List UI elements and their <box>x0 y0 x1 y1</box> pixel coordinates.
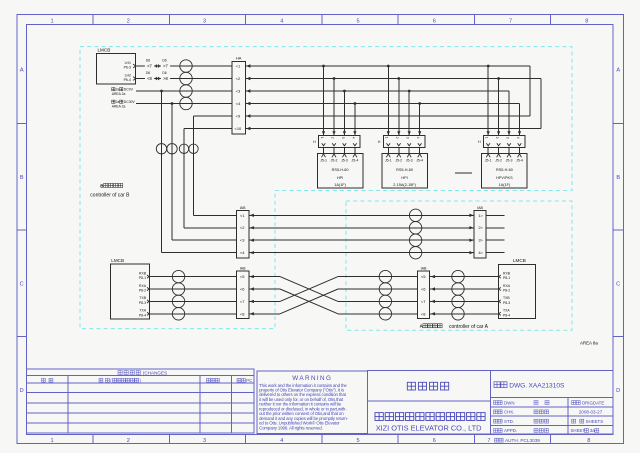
changes table column lines <box>67 375 69 433</box>
svg-text:1: 1 <box>485 137 489 139</box>
svg-text:J5-4: J5-4 <box>516 159 523 163</box>
changes table column header change <box>99 378 103 382</box>
title text parallel circuit <box>407 382 415 390</box>
svg-text:AREA 2a: AREA 2a <box>112 92 126 96</box>
hall unit RS5 unit1 box <box>317 154 363 189</box>
svg-text:4>: 4> <box>478 250 483 255</box>
title row origdate <box>572 401 576 405</box>
svg-text:AUTH. PCL3039: AUTH. PCL3039 <box>505 438 540 443</box>
unit3 pin J5-1 <box>487 147 489 153</box>
svg-text:B: B <box>616 175 620 181</box>
IAB upper-right pin 2 <box>469 226 473 229</box>
wire vertical HA10 to IAB-up pin2 <box>183 129 185 228</box>
junction strip3 pin2 <box>497 77 500 80</box>
svg-text:LMCB: LMCB <box>111 258 124 263</box>
svg-text:HPI: HPI <box>401 176 407 180</box>
unit3 pin J5-2 <box>498 147 500 153</box>
junction strip2 pin1 <box>387 65 390 68</box>
svg-text:B: B <box>20 175 24 181</box>
svg-text:2: 2 <box>127 438 130 444</box>
svg-text:<3: <3 <box>236 89 241 94</box>
svg-text:<2: <2 <box>240 225 245 230</box>
wire IAB lower-right to LMCB-A row 7 <box>430 300 499 302</box>
wire drop strip2 pin1 <box>387 66 389 136</box>
warning notice box <box>257 371 368 433</box>
twisted pair IAB link rows 3-4 <box>409 234 421 246</box>
svg-text:APPD.: APPD. <box>504 428 517 433</box>
frame row ticks left <box>17 123 27 125</box>
svg-text:>7: >7 <box>163 64 168 69</box>
connector HA <box>232 62 245 134</box>
svg-text:<3: <3 <box>240 238 245 243</box>
wire drop strip1 pin1 <box>323 66 325 136</box>
svg-text:P8-2: P8-2 <box>139 289 146 293</box>
svg-text:IAB: IAB <box>421 267 427 271</box>
svg-text:<7: <7 <box>421 299 426 304</box>
svg-text:2: 2 <box>395 137 399 139</box>
svg-text:ORIGDATE: ORIGDATE <box>582 400 605 405</box>
svg-text:>8: >8 <box>163 76 168 81</box>
wire IAB upper-right stub 3 <box>486 239 504 241</box>
twisted pair LH1-LH2 <box>180 60 192 72</box>
junction DC30V vertical <box>171 102 174 105</box>
svg-text:IAB: IAB <box>240 206 246 210</box>
svg-text:WARNING: WARNING <box>292 375 332 382</box>
wire drop strip3 pin4 <box>519 104 521 136</box>
svg-text:2: 2 <box>330 137 334 139</box>
junction strip2 pin3 <box>408 90 411 93</box>
svg-text:P8-4: P8-4 <box>503 313 510 317</box>
svg-text:1>: 1> <box>478 213 483 218</box>
wire drop strip3 pin1 <box>487 66 489 136</box>
junction strip3 pin1 <box>487 65 490 68</box>
junction strip1 pin3 <box>343 90 346 93</box>
svg-text:J5-4: J5-4 <box>351 159 358 163</box>
wire drop strip2 pin4 <box>419 104 421 136</box>
svg-text:RXB: RXB <box>139 271 147 275</box>
wire loop riser1 to HA9 <box>529 66 531 116</box>
twisted pair LMCB-A rows 5-6 <box>452 270 464 282</box>
svg-text:2008-03-27: 2008-03-27 <box>579 410 603 415</box>
svg-text:RS5-H-60: RS5-H-60 <box>332 168 349 172</box>
svg-text:A: A <box>616 68 620 74</box>
svg-text:5: 5 <box>356 438 359 444</box>
unit2 pin J5-3 <box>408 147 410 153</box>
svg-text:6: 6 <box>433 438 436 444</box>
svg-text:7: 7 <box>488 438 491 444</box>
svg-text:D6: D6 <box>146 59 150 63</box>
svg-text:P8-1: P8-1 <box>139 276 146 280</box>
svg-text:<6: <6 <box>421 287 426 292</box>
svg-text:D6: D6 <box>162 71 166 75</box>
wire crossover diagonal 8-6 <box>280 289 338 314</box>
wire IAB lower-right to LMCB-A row 6 <box>430 288 499 290</box>
wire loop riser2 to HA10 <box>540 79 542 129</box>
title row sheets <box>572 419 576 423</box>
svg-text:J5-2: J5-2 <box>395 159 402 163</box>
wire LMCB-B to IAB row 5 <box>149 276 236 278</box>
svg-text:PC: PC <box>246 378 252 383</box>
svg-text:IAB: IAB <box>477 206 483 210</box>
svg-text:3: 3 <box>505 137 509 139</box>
svg-text:<1: <1 <box>236 64 241 69</box>
dashed boundary controller of car A region <box>346 201 572 330</box>
svg-text:<10: <10 <box>235 126 243 131</box>
svg-text:8: 8 <box>587 438 590 444</box>
svg-text:7: 7 <box>509 18 512 24</box>
changes table row lines <box>27 374 255 376</box>
twisted pair LMCB-B rows 7-8 <box>172 295 184 307</box>
svg-text:SHEET: SHEET <box>571 428 586 433</box>
svg-text:<4: <4 <box>240 250 245 255</box>
wire drop strip2 pin2 <box>398 79 400 136</box>
svg-text:P8-3: P8-3 <box>139 301 146 305</box>
svg-text:controller of car B: controller of car B <box>90 192 130 198</box>
svg-text:D6: D6 <box>162 59 166 63</box>
wire HA1 riser row <box>245 65 530 67</box>
wire HA9 right segment <box>245 115 530 117</box>
svg-text:1: 1 <box>50 438 53 444</box>
wire HA4 riser row <box>245 103 519 105</box>
continuation dash between unit2 and unit3 <box>455 172 472 174</box>
drawing number text <box>494 382 500 388</box>
svg-text:SHEETS: SHEETS <box>586 419 604 424</box>
wire LH1 row <box>136 65 233 67</box>
twisted pair DC rows <box>180 85 192 97</box>
title row CHK <box>494 410 498 414</box>
changes table column header change PC <box>237 378 241 382</box>
svg-text:J5-4: J5-4 <box>416 159 423 163</box>
svg-text:D6: D6 <box>146 71 150 75</box>
svg-text:4: 4 <box>280 18 283 24</box>
wire HA10 left segment <box>184 128 232 130</box>
connector IAB upper-left <box>236 211 249 259</box>
svg-text:2a: 2a <box>116 100 120 104</box>
svg-text:D: D <box>616 388 620 394</box>
svg-text:controller of car A: controller of car A <box>449 324 489 330</box>
junction strip1 pin2 <box>333 77 336 80</box>
wire crossover right stubs <box>338 276 417 278</box>
wire HA9 left segment <box>194 115 233 117</box>
svg-text:J5-3: J5-3 <box>506 159 513 163</box>
wire drop strip1 pin3 <box>343 91 345 136</box>
svg-text:<7: <7 <box>240 299 245 304</box>
svg-text:2: 2 <box>495 137 499 139</box>
svg-text:3: 3 <box>203 438 206 444</box>
LMCB controller-B box <box>97 54 136 85</box>
unit1 pin J5-4 <box>354 147 356 153</box>
svg-text:RXA: RXA <box>503 284 511 288</box>
svg-text:DWG.: DWG. <box>509 382 527 389</box>
wire IAB lower-right to LMCB-A row 8 <box>430 313 499 315</box>
IAB upper-right pin 4 <box>469 251 473 254</box>
svg-text:J5-1: J5-1 <box>385 159 392 163</box>
svg-text:2: 2 <box>127 18 130 24</box>
unit2 pin J5-2 <box>398 147 400 153</box>
twisted pair LMCB-A rows 7-8 <box>452 295 464 307</box>
hall unit RS5 unit3 box <box>482 154 528 189</box>
svg-text:4: 4 <box>416 137 420 139</box>
twisted pair verticals left <box>156 144 166 154</box>
svg-text:3: 3 <box>341 137 345 139</box>
svg-text:A: A <box>20 68 24 74</box>
svg-text:IAB: IAB <box>240 267 246 271</box>
svg-text:5: 5 <box>356 18 359 24</box>
connector H strip1 <box>319 136 360 148</box>
dashed boundary controller of car B region <box>80 47 572 329</box>
svg-text:J5-2: J5-2 <box>495 159 502 163</box>
IAB upper-right pin 3 <box>469 239 473 242</box>
LMCB controller-A box <box>499 264 536 318</box>
label sheet2a DC0V <box>112 88 115 91</box>
svg-text:J5-1: J5-1 <box>320 159 327 163</box>
svg-text:LH2: LH2 <box>125 73 131 77</box>
svg-text:P8-3: P8-3 <box>503 301 510 305</box>
svg-text:XIZI OTIS ELEVATOR CO., LTD: XIZI OTIS ELEVATOR CO., LTD <box>376 424 482 433</box>
svg-text:<4: <4 <box>236 101 241 106</box>
unit2 pin J5-4 <box>419 147 421 153</box>
svg-text:<8: <8 <box>147 76 152 81</box>
svg-text:CHK.: CHK. <box>504 410 515 415</box>
wire LMCB-B to IAB row 8 <box>149 313 236 315</box>
connector H strip3 <box>484 136 525 148</box>
svg-text:J5-3: J5-3 <box>341 159 348 163</box>
unit3 pin J5-3 <box>508 147 510 153</box>
connector H strip2 <box>383 136 424 148</box>
svg-text:STD.: STD. <box>504 419 514 424</box>
frame column ticks bottom <box>92 435 94 444</box>
svg-text:1: 1 <box>385 137 389 139</box>
unit2 pin J5-1 <box>387 147 389 153</box>
hall unit RS5 unit2 box <box>382 154 428 189</box>
svg-text:1: 1 <box>320 137 324 139</box>
svg-text:TXA: TXA <box>503 309 510 313</box>
changes table column header date <box>42 378 46 382</box>
svg-text:<5: <5 <box>421 274 426 279</box>
svg-text:3a: 3a <box>590 428 595 433</box>
wire IAB upper-right stub 2 <box>486 227 504 229</box>
svg-text:LMCB: LMCB <box>98 48 111 53</box>
wire vertical DC30V to IAB-up pin3 <box>171 104 173 241</box>
wire drop strip3 pin3 <box>508 91 510 136</box>
svg-text:C: C <box>20 282 24 288</box>
svg-text:P6-3: P6-3 <box>124 66 131 70</box>
wire drop strip3 pin2 <box>498 79 500 136</box>
unit1 pin J5-1 <box>323 147 325 153</box>
wire DC30V row <box>136 103 232 105</box>
svg-text:<8: <8 <box>240 311 245 316</box>
svg-text:<6: <6 <box>240 287 245 292</box>
svg-text:<2: <2 <box>236 76 241 81</box>
LMCB controller-B lower box <box>111 264 150 319</box>
wire drop strip2 pin3 <box>408 91 410 136</box>
svg-text:2a: 2a <box>116 88 120 92</box>
wire LMCB-B to IAB row 6 <box>149 288 236 290</box>
svg-text:RS5-H-60: RS5-H-60 <box>496 168 513 172</box>
IAB upper-right pin 1 <box>469 214 473 217</box>
svg-text:8: 8 <box>585 18 588 24</box>
svg-text:P8-1: P8-1 <box>503 276 510 280</box>
svg-text:3: 3 <box>203 18 206 24</box>
title table row lines <box>491 406 613 408</box>
wire vertical DC0V to IAB-up pin4 <box>161 91 163 253</box>
wire DC0V row <box>136 90 232 92</box>
svg-text:TXA: TXA <box>139 309 146 313</box>
title box drawing name <box>368 371 491 434</box>
svg-text:HA: HA <box>236 55 242 60</box>
svg-text:DC30V: DC30V <box>124 100 136 104</box>
svg-text:C: C <box>616 282 620 288</box>
svg-text:AREA 2a: AREA 2a <box>112 105 126 109</box>
svg-text:P8-2: P8-2 <box>503 289 510 293</box>
svg-text:HPI: HPI <box>337 176 343 180</box>
svg-text:3>: 3> <box>478 238 483 243</box>
unit1 pin J5-3 <box>343 147 345 153</box>
twisted pair crossover rows 7-8 <box>379 295 391 307</box>
connector IAB lower-left <box>236 271 249 319</box>
wire crossover diagonal 6-8 <box>280 289 338 314</box>
svg-text:<9: <9 <box>236 114 241 119</box>
connector IAB lower-right <box>417 271 429 319</box>
svg-text:1A(1F): 1A(1F) <box>499 183 511 187</box>
svg-text:<8: <8 <box>421 311 426 316</box>
svg-text:4: 4 <box>516 137 520 139</box>
svg-text:LMCB: LMCB <box>513 258 526 263</box>
svg-text:2>: 2> <box>478 225 483 230</box>
svg-text:AREA 8a: AREA 8a <box>580 341 598 346</box>
wire crossover diagonal 5-7 <box>280 277 338 302</box>
svg-text:HPV/PKS: HPV/PKS <box>496 176 513 180</box>
wire LMCB-B to IAB row 7 <box>149 300 236 302</box>
label sheet2a DC30V <box>112 100 115 103</box>
connector IAB upper-right <box>474 211 486 259</box>
title row DWN <box>494 401 498 405</box>
svg-text:J5-2: J5-2 <box>331 159 338 163</box>
changes table column header changer <box>207 378 211 382</box>
junction strip1 pin4 <box>354 102 357 105</box>
svg-text:(CHANGES: (CHANGES <box>143 371 167 376</box>
unit3 pin J5-4 <box>519 147 521 153</box>
svg-text:DWN: DWN <box>504 400 515 405</box>
wire crossover left stubs <box>249 276 280 278</box>
title table column line <box>567 398 569 434</box>
svg-text:1A(1F): 1A(1F) <box>334 183 346 187</box>
svg-text:2-15A(2-15F): 2-15A(2-15F) <box>393 183 416 187</box>
svg-text:RXB: RXB <box>503 271 511 275</box>
drawing number box <box>491 371 613 434</box>
svg-text:P6-4: P6-4 <box>124 78 131 82</box>
changes table box <box>27 369 255 433</box>
svg-text:D: D <box>20 388 24 394</box>
wire IAB link row 4 <box>249 252 474 254</box>
title row STD <box>494 419 498 423</box>
svg-text:J5-3: J5-3 <box>406 159 413 163</box>
svg-text:<5: <5 <box>240 274 245 279</box>
svg-text:4: 4 <box>280 438 283 444</box>
wire LH2 row <box>136 78 233 80</box>
twisted pair LMCB-B rows 5-6 <box>172 270 184 282</box>
svg-text:1: 1 <box>50 18 53 24</box>
wire IAB upper-right stub 4 <box>486 252 504 254</box>
svg-text:TXB: TXB <box>139 296 146 300</box>
svg-text:<1: <1 <box>240 213 245 218</box>
changes table header text <box>118 371 122 375</box>
junction strip2 pin2 <box>397 77 400 80</box>
svg-text:XAA21310S: XAA21310S <box>529 382 566 389</box>
company name chinese <box>375 413 383 421</box>
svg-text:J5-1: J5-1 <box>485 159 492 163</box>
wire vertical HA9 to IAB-up pin1 <box>193 116 195 215</box>
wire IAB link row 2 <box>249 227 474 229</box>
wire HA2 riser row <box>245 78 541 80</box>
svg-text:LH1: LH1 <box>125 61 131 65</box>
junction strip1 pin1 <box>322 65 325 68</box>
frame row ticks right <box>613 123 624 125</box>
svg-text:<7: <7 <box>147 64 152 69</box>
frame column ticks top <box>92 15 94 25</box>
junction DC0V vertical <box>160 90 163 93</box>
wire HA3 riser row <box>245 90 509 92</box>
twisted pair IAB link rows 1-2 <box>409 209 421 221</box>
svg-text:TXB: TXB <box>503 296 510 300</box>
svg-text:4: 4 <box>351 137 355 139</box>
title row APPD <box>494 429 498 433</box>
junction strip2 pin4 <box>418 102 421 105</box>
svg-text:P8-4: P8-4 <box>139 313 146 317</box>
svg-text:3: 3 <box>406 137 410 139</box>
twisted pair verticals right <box>179 144 188 153</box>
svg-text:Company 1998. All rights reser: Company 1998. All rights reserved. <box>259 425 323 430</box>
wire IAB lower-right to LMCB-A row 5 <box>430 276 499 278</box>
svg-text:DC0V: DC0V <box>124 88 134 92</box>
svg-text:RS5-H-60: RS5-H-60 <box>396 168 413 172</box>
wire drop strip1 pin2 <box>333 79 335 136</box>
wire HA10 right segment <box>245 128 541 130</box>
wire crossover diagonal 7-5 <box>280 277 338 302</box>
wire IAB upper-right stub 1 <box>486 214 504 216</box>
wire IAB link row 3 <box>249 239 474 241</box>
unit1 pin J5-2 <box>333 147 335 153</box>
wire drop strip1 pin4 <box>354 104 356 136</box>
twisted pair crossover rows 5-6 <box>379 270 391 282</box>
svg-text:RXA: RXA <box>139 284 147 288</box>
svg-text:6: 6 <box>433 18 436 24</box>
wire IAB link row 1 <box>249 214 474 216</box>
